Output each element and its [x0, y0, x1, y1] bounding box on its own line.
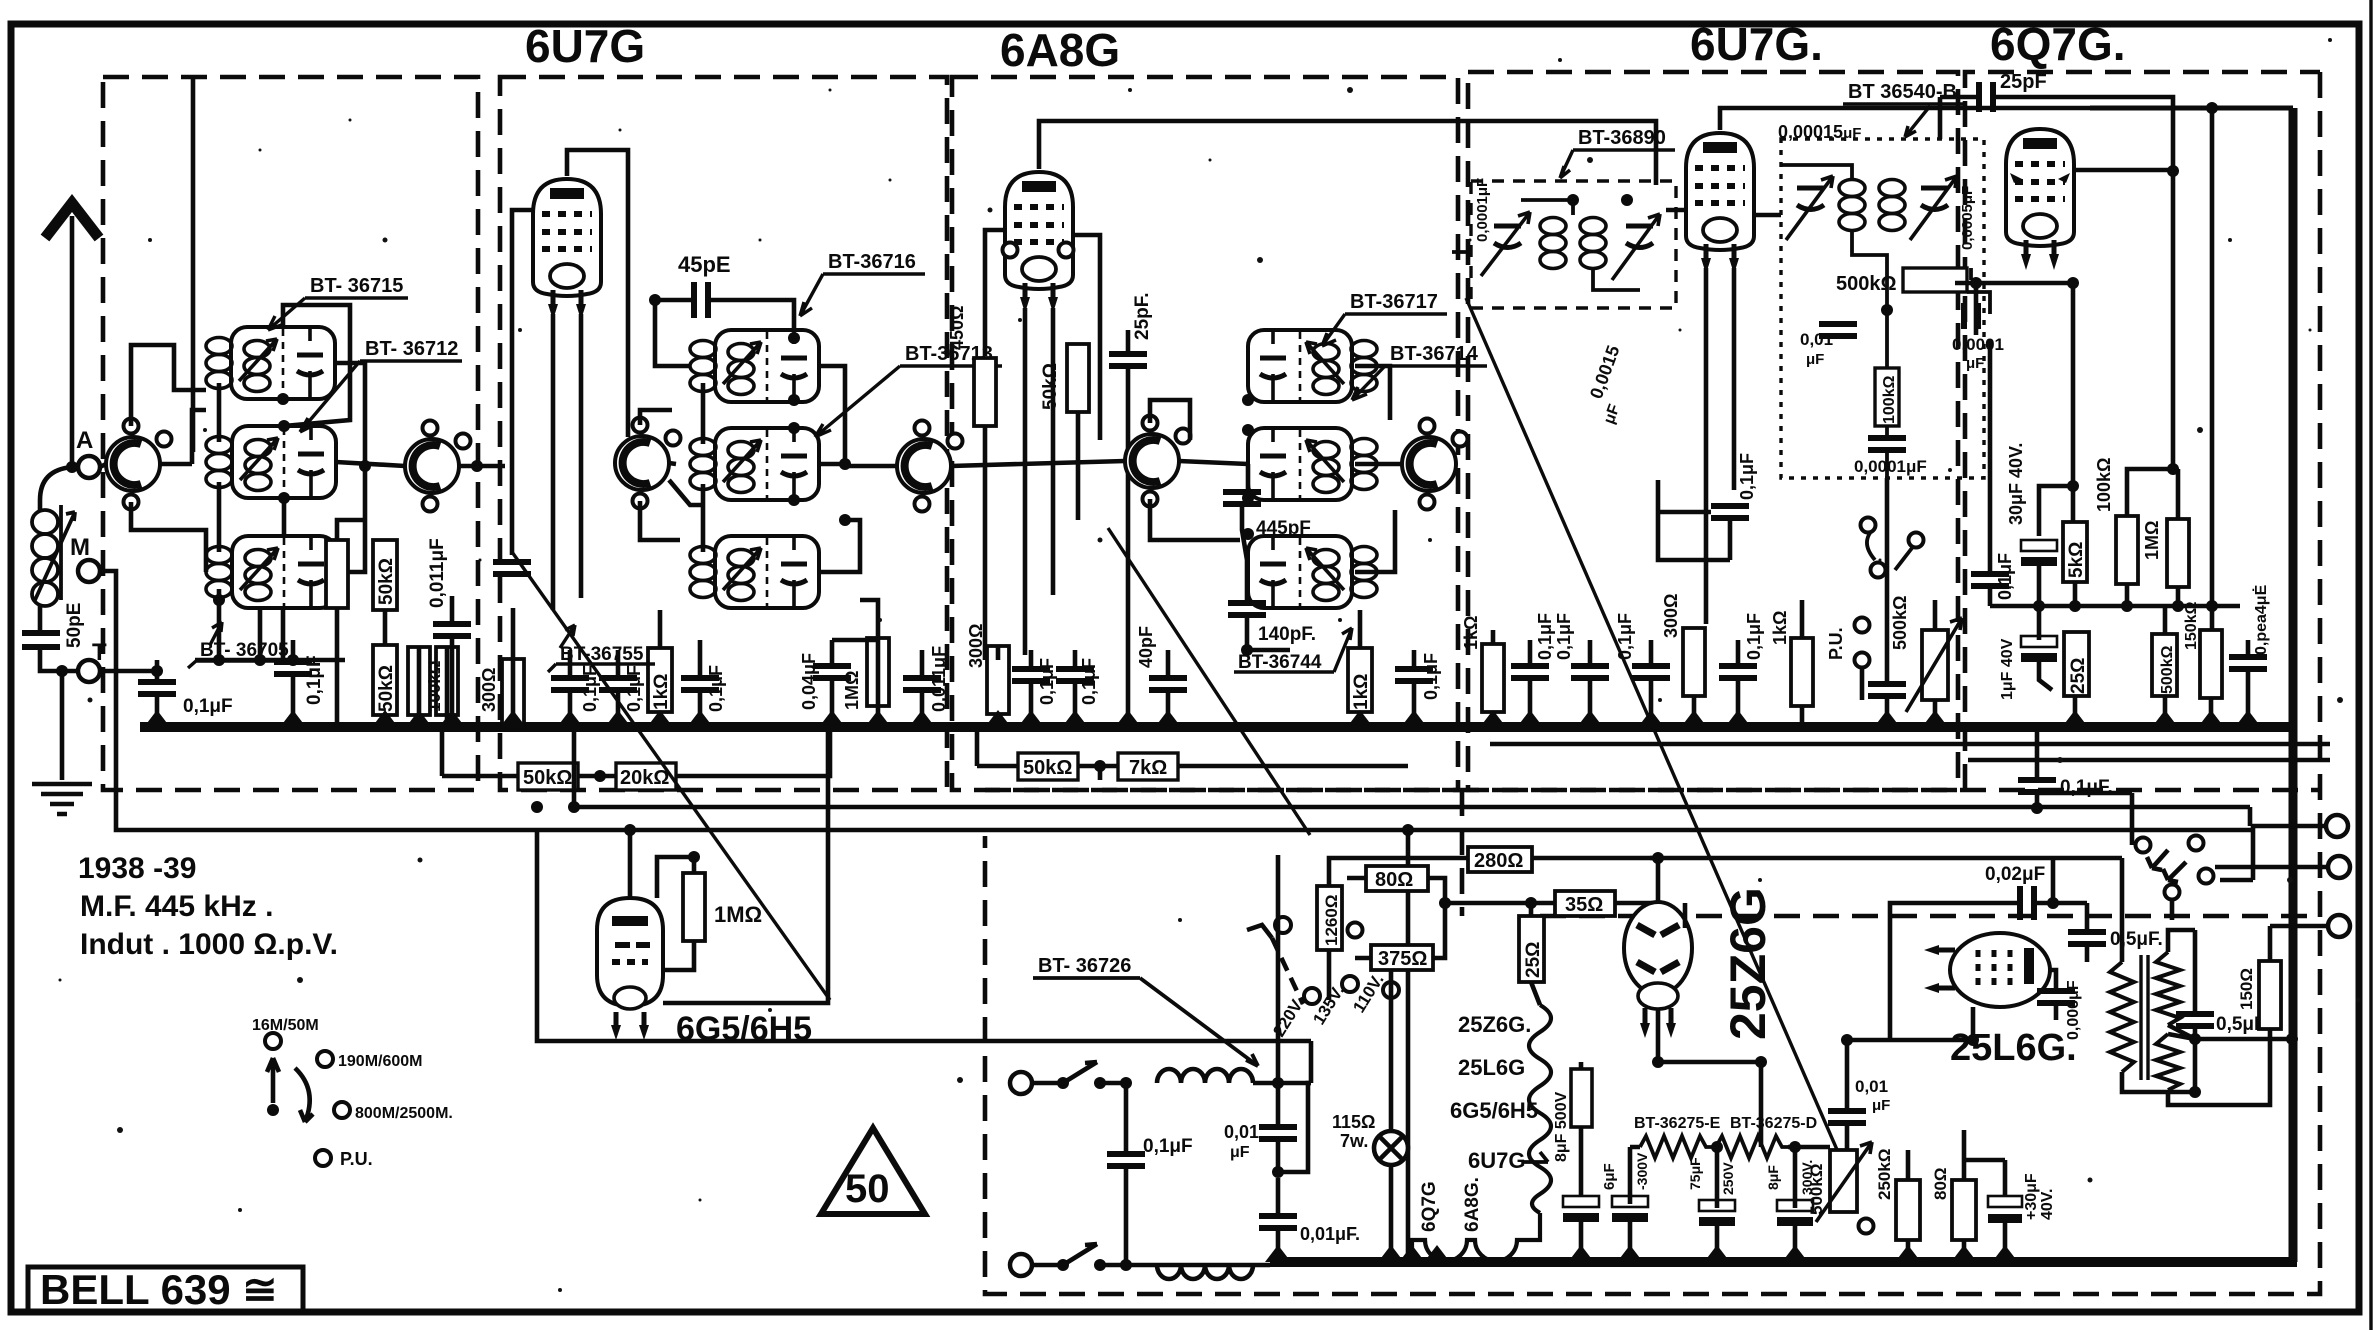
svg-text:1kΩ: 1kΩ	[651, 674, 672, 710]
cap 0.01uF b	[1259, 1216, 1297, 1228]
cap 0.1uF b	[599, 678, 637, 690]
svg-text:0,011μF: 0,011μF	[427, 538, 448, 608]
IF2 trimmer a	[1481, 212, 1530, 276]
svg-text:-300V: -300V	[1634, 1152, 1650, 1190]
wire coil to cap to T	[40, 604, 78, 671]
stage5 leads	[2039, 606, 2248, 727]
triangle 50 mark	[821, 1128, 925, 1214]
wire A to coil	[40, 467, 72, 512]
transformer wires	[1650, 858, 2292, 1105]
wire 25pF	[985, 330, 1128, 727]
svg-text:P.U.: P.U.	[1826, 627, 1846, 660]
stage3 interconnect	[1150, 366, 1402, 650]
svg-text:150kΩ: 150kΩ	[2183, 601, 2200, 650]
svg-text:6Q7G.: 6Q7G.	[1990, 18, 2126, 70]
wire 6Q7G cathode circuit	[1955, 171, 2178, 536]
cap 0.1uF s4d	[1719, 666, 1757, 678]
cap 0.1uF s4c	[1632, 666, 1670, 678]
svg-text:1MΩ: 1MΩ	[714, 902, 762, 927]
svg-text:BT-36755: BT-36755	[560, 644, 644, 665]
triode-diode V5 6Q7G	[2006, 129, 2074, 270]
svg-text:25L6G.: 25L6G.	[1950, 1027, 2077, 1069]
resistor 1k boxed s3	[1348, 648, 1372, 712]
svg-text:1kΩ: 1kΩ	[1461, 616, 1481, 650]
IF transformer block2	[715, 428, 819, 500]
IF2 trimmer b	[1612, 214, 1660, 280]
svg-text:0,011μF: 0,011μF	[929, 646, 949, 712]
ground	[32, 784, 92, 814]
resistor 500k boxed	[2152, 634, 2177, 696]
wire 6A8G grid caps	[985, 230, 1100, 655]
svg-text:0,1μF: 0,1μF	[304, 655, 325, 705]
wire choke junction	[1253, 855, 1311, 1124]
antenna coil L1	[32, 505, 75, 606]
resistor 150 Ohm out	[2259, 961, 2281, 1029]
svg-text:80Ω: 80Ω	[1375, 869, 1413, 891]
svg-text:25pF.: 25pF.	[1132, 292, 1153, 340]
cap 0.1uF mid	[274, 662, 312, 674]
capacitor 50pF	[22, 633, 60, 647]
mixer triode V1a	[106, 419, 172, 510]
svg-text:50: 50	[845, 1167, 890, 1211]
terminal wires	[2215, 826, 2328, 926]
svg-text:6U7G: 6U7G	[525, 20, 645, 72]
wire 25pF run	[1940, 97, 2212, 606]
pentode V3 6A8G	[1005, 172, 1073, 313]
resistor 1k boxed	[648, 648, 672, 712]
svg-text:100kΩ: 100kΩ	[425, 661, 444, 712]
wire blocks top feed	[283, 305, 350, 536]
resistor 1260 boxed	[1317, 886, 1342, 950]
svg-text:8μF 500V: 8μF 500V	[1553, 1091, 1570, 1162]
svg-text:6Q7G: 6Q7G	[1419, 1181, 1440, 1232]
wire AVC long line	[116, 827, 1311, 1041]
svg-text:6U7G.: 6U7G.	[1690, 18, 1823, 70]
svg-text:7w.: 7w.	[1340, 1131, 1368, 1151]
terminal M	[78, 560, 100, 582]
grid pins	[1003, 243, 1018, 258]
AVC 50k boxed s3	[1018, 753, 1078, 780]
svg-text:P.U.: P.U.	[340, 1149, 373, 1169]
svg-text:BT- 36712: BT- 36712	[365, 338, 458, 360]
svg-text:300Ω: 300Ω	[1661, 594, 1681, 638]
svg-text:6G5/6H5: 6G5/6H5	[676, 1010, 812, 1048]
resistor 1k s4b	[1791, 638, 1813, 706]
stage3 leads to bus	[998, 610, 1414, 727]
heater resistor wavy	[1529, 1005, 1551, 1213]
svg-text:BT-36716: BT-36716	[828, 251, 916, 273]
wire out to 6A8G	[951, 461, 1125, 466]
terminal T	[78, 660, 100, 682]
det trimmer b	[1910, 176, 1957, 240]
cap 445pF	[1223, 492, 1261, 504]
IF transformer BT-36716 block1	[715, 330, 819, 402]
det coil a	[1839, 180, 1865, 231]
cap 0.006uF	[2037, 991, 2075, 1003]
resistor 25 boxed vertical	[1519, 916, 1544, 982]
stage1 component leads to bus	[157, 520, 452, 727]
mains switch top	[1057, 1077, 1069, 1089]
svg-text:0,1μF: 0,1μF	[1535, 613, 1555, 660]
wire A to triode	[100, 464, 106, 467]
resistor 375 boxed	[1371, 945, 1433, 970]
svg-text:25pF: 25pF	[2000, 71, 2047, 93]
svg-text:375Ω: 375Ω	[1378, 948, 1427, 970]
electrolytic 30uF 40V	[2021, 540, 2057, 566]
primary coil	[690, 341, 716, 392]
resistor 280 boxed	[1468, 847, 1532, 872]
bus feet stage2	[500, 710, 526, 727]
triode V2a	[615, 418, 681, 509]
svg-text:μF: μF	[1230, 1144, 1250, 1161]
resistor 250k	[1875, 1149, 1920, 1240]
svg-text:0,1μF: 0,1μF	[183, 696, 233, 717]
svg-text:0,01: 0,01	[1800, 330, 1833, 349]
resistor 300 Ohm s3	[987, 646, 1009, 714]
right dashed border	[985, 72, 2320, 1294]
svg-text:μF: μF	[1966, 355, 1984, 372]
below bus right rails	[1490, 744, 2330, 826]
svg-text:8μF: 8μF	[1765, 1165, 1781, 1190]
volume pot 500k	[1890, 596, 1962, 712]
cap 0.1uF c	[681, 678, 719, 690]
svg-text:T: T	[92, 639, 107, 666]
svg-text:115Ω: 115Ω	[1332, 1112, 1375, 1132]
svg-text:25L6G: 25L6G	[1458, 1055, 1525, 1080]
svg-text:0,1μF: 0,1μF	[1143, 1136, 1193, 1157]
cap 0.01uF det	[1819, 324, 1857, 336]
stage box 6Q7G	[1965, 72, 2320, 790]
band switch	[265, 1033, 350, 1166]
svg-text:6A8G.: 6A8G.	[1462, 1177, 1483, 1232]
cap 0.04uF	[813, 666, 851, 678]
wire antenna lead	[70, 216, 75, 467]
wire stage1 lower row	[195, 589, 345, 660]
cap 0.1uF left	[138, 682, 176, 694]
junction dots stage1	[277, 393, 289, 405]
svg-text:BT- 36715: BT- 36715	[310, 275, 403, 297]
svg-text:500kΩ: 500kΩ	[1890, 596, 1910, 650]
cap 0.1uF PU	[1868, 684, 1906, 696]
resistor 300 s4	[1683, 628, 1705, 696]
cap 0.011uF	[903, 678, 941, 690]
cap 0.01uF a	[1259, 1127, 1297, 1139]
title text 1938-39	[78, 852, 338, 961]
wire T to cap	[100, 669, 157, 674]
resistor 50k	[1067, 344, 1089, 412]
svg-text:45pE: 45pE	[678, 252, 731, 277]
resistor 1M eye	[683, 873, 705, 941]
svg-text:0,04μF: 0,04μF	[799, 653, 819, 710]
cap 0.5uF speaker	[2176, 1014, 2214, 1026]
wire screen drop left	[512, 210, 581, 610]
svg-text:6U7G: 6U7G	[1468, 1148, 1525, 1173]
bottom power bus	[1270, 1257, 2297, 1267]
pointer diagonal stage2	[512, 552, 830, 1000]
grid wire 25L6G	[1847, 903, 1973, 1040]
cap 0.1uF below bus right	[2018, 780, 2056, 792]
volume pot 500k af	[1807, 1142, 1872, 1222]
electrolytic bank	[1563, 1196, 1599, 1222]
svg-text:50kΩ: 50kΩ	[376, 665, 397, 712]
resistor 1M	[2167, 519, 2189, 587]
mains voltage selector	[1247, 917, 1399, 1004]
svg-text:450Ω: 450Ω	[947, 306, 967, 350]
svg-text:1MΩ: 1MΩ	[2142, 521, 2162, 560]
resistor plain lower	[408, 647, 430, 715]
svg-text:0,0001μF: 0,0001μF	[1854, 457, 1927, 476]
wire box internals	[1452, 200, 1640, 290]
svg-text:Indut . 1000 Ω.p.V.: Indut . 1000 Ω.p.V.	[80, 928, 338, 961]
junction dots stage3	[1242, 394, 1254, 406]
top right feed wire	[2090, 106, 2293, 111]
svg-text:μF: μF	[1806, 351, 1824, 368]
wire top drop	[191, 77, 196, 452]
resistor 100k	[2116, 516, 2138, 584]
svg-text:150Ω: 150Ω	[2237, 968, 2256, 1010]
node A junction	[66, 461, 78, 473]
label BT-36705	[188, 622, 298, 668]
svg-text:300Ω: 300Ω	[479, 668, 499, 712]
output terminals	[2326, 815, 2348, 837]
svg-text:0,1μF: 0,1μF	[1744, 613, 1764, 660]
svg-text:20kΩ: 20kΩ	[620, 767, 669, 789]
cap grid 0.1uF	[493, 562, 531, 574]
svg-text:1μF 40V: 1μF 40V	[1999, 638, 2016, 700]
svg-text:7kΩ: 7kΩ	[1129, 757, 1167, 779]
BELL 639 title box	[28, 1267, 303, 1313]
svg-text:35Ω: 35Ω	[1565, 894, 1603, 916]
svg-text:30μF 40V.: 30μF 40V.	[2006, 443, 2026, 525]
cap 25pF top right	[1979, 82, 1993, 112]
resistor 100k	[436, 647, 458, 715]
wire coil links	[160, 383, 219, 552]
cap 40pF	[1149, 678, 1187, 690]
resistor 25 Ohm boxed	[2064, 632, 2089, 696]
cap 0.1uF 6Q7G cath	[1971, 574, 2009, 586]
svg-text:300Ω: 300Ω	[966, 624, 986, 668]
AVC 7k boxed s3	[1118, 753, 1178, 780]
svg-text:0,00015μF: 0,00015μF	[1778, 122, 1861, 142]
svg-text:0,006μF: 0,006μF	[2065, 980, 2082, 1040]
terminal A	[78, 456, 100, 478]
svg-text:M: M	[70, 534, 90, 561]
stage box 6U7G det	[1468, 72, 1958, 790]
cap 140pF	[1228, 603, 1266, 615]
svg-text:0,0001: 0,0001	[1952, 335, 2004, 354]
filter cap 8uF500V box	[1553, 1069, 1592, 1162]
svg-text:0,5μF.: 0,5μF.	[2110, 929, 2163, 950]
triode V2b	[897, 421, 963, 512]
svg-text:140pF.: 140pF.	[1258, 624, 1316, 645]
cap 0.1uF s3c	[1395, 669, 1433, 681]
bus feet stage1	[144, 710, 170, 727]
svg-text:800M/2500M.: 800M/2500M.	[355, 1105, 453, 1122]
svg-text:BT-36275-E: BT-36275-E	[1634, 1115, 1721, 1132]
IF2 coil b	[1580, 218, 1606, 269]
osc transformer block1	[1248, 330, 1352, 402]
PU terminals	[1855, 618, 1870, 633]
junction T	[56, 665, 68, 677]
label BT-36716	[800, 251, 925, 316]
main ground bus	[140, 722, 2296, 732]
triode V3a	[1125, 416, 1191, 507]
svg-text:BT- 36726: BT- 36726	[1038, 955, 1131, 977]
svg-text:0,1μF.: 0,1μF.	[2060, 777, 2113, 798]
svg-text:6G5/6H5: 6G5/6H5	[1450, 1098, 1538, 1123]
resistor 150k	[2200, 630, 2222, 698]
svg-text:50kΩ: 50kΩ	[1040, 363, 1061, 410]
svg-text:500kΩ: 500kΩ	[2159, 645, 2176, 694]
IF transformer block2	[232, 426, 336, 498]
cap 0.01uF af	[1828, 1111, 1866, 1123]
electrolytic 30uF 40V af	[1988, 1173, 2056, 1223]
bus feet stage3	[985, 710, 1011, 727]
label BT-36726	[1033, 955, 1258, 1066]
cap 0.0001uF det	[1964, 303, 1978, 329]
svg-text:50pE: 50pE	[64, 603, 85, 648]
svg-text:50kΩ: 50kΩ	[1023, 757, 1072, 779]
stage2 leads to bus	[513, 600, 922, 727]
svg-text:6A8G: 6A8G	[1000, 24, 1120, 76]
rect cathode wire	[1658, 903, 1761, 1147]
IF transformer block3	[715, 536, 819, 608]
pickup switch	[1867, 533, 1912, 570]
svg-text:16M/50M: 16M/50M	[252, 1017, 319, 1034]
power network wires	[1311, 858, 1658, 1083]
svg-text:0,01μF.: 0,01μF.	[1300, 1224, 1360, 1244]
svg-text:50kΩ: 50kΩ	[376, 558, 397, 605]
pilot lamp 115 Ohm	[1374, 1131, 1408, 1165]
svg-text:1MΩ: 1MΩ	[842, 671, 862, 710]
svg-text:1kΩ: 1kΩ	[1351, 674, 1372, 710]
svg-text:0,02μF: 0,02μF	[1985, 864, 2045, 885]
wire 6A8G top to osc	[1039, 121, 1656, 185]
cap 0.1uF a	[551, 678, 589, 690]
svg-text:100kΩ: 100kΩ	[2094, 458, 2114, 512]
svg-text:BELL 639 ≅: BELL 639 ≅	[40, 1266, 278, 1313]
triode V2 input	[405, 421, 471, 512]
wire M run down and across	[100, 571, 2255, 1256]
svg-text:50kΩ: 50kΩ	[523, 767, 572, 789]
wire V4 plate top	[1720, 108, 2090, 130]
AVC resistor 20kOhm boxed	[616, 763, 676, 790]
svg-text:0,1μF: 0,1μF	[1615, 613, 1635, 660]
resistor 450 Ohm	[974, 358, 996, 426]
svg-text:0,0005μF: 0,0005μF	[1959, 186, 1976, 250]
eye wires	[630, 731, 828, 1003]
det coil b	[1879, 180, 1905, 231]
output transformer primary	[2110, 952, 2180, 1090]
resistor 80 Ohm af	[1931, 1167, 1976, 1240]
svg-text:25Ω: 25Ω	[1523, 942, 1544, 978]
wire secondary chain	[336, 363, 405, 572]
resistor 80 boxed	[1366, 866, 1428, 891]
primary coil block2	[206, 437, 232, 488]
choke coil top BT-36726	[1157, 1069, 1253, 1083]
svg-text:0,1μF: 0,1μF	[706, 665, 726, 712]
svg-text:0,1μF: 0,1μF	[1037, 658, 1057, 705]
cap 0.1uF s3a	[1012, 669, 1050, 681]
svg-text:1kΩ: 1kΩ	[1770, 611, 1790, 645]
svg-text:1260Ω: 1260Ω	[1322, 895, 1341, 946]
bus feet stage4	[1480, 710, 1506, 727]
svg-text:M.F. 445 kHz .: M.F. 445 kHz .	[80, 890, 273, 923]
cap 0.0001uF det2	[1868, 438, 1906, 450]
svg-text:0,1μF: 0,1μF	[1079, 658, 1099, 705]
cap 0.1uF s4a	[1511, 666, 1549, 678]
pentode V4 6U7G det	[1686, 133, 1754, 274]
junction row wire	[1990, 566, 2240, 632]
svg-text:25Z6G.: 25Z6G.	[1458, 1012, 1531, 1037]
svg-text:25Ω: 25Ω	[2068, 658, 2089, 694]
label BT-36713	[815, 343, 1002, 437]
triode V3b	[1402, 419, 1468, 510]
label BT-36717	[1322, 291, 1447, 346]
resistor BT-36275-E	[1640, 1136, 1712, 1158]
wires mixer to coils	[131, 345, 206, 572]
svg-text:0,01: 0,01	[1224, 1122, 1259, 1142]
wire tone drop	[2037, 793, 2253, 920]
svg-text:0,1μF: 0,1μF	[1737, 453, 1757, 500]
heater bumps 6Q7G 6A8G	[1412, 1213, 1540, 1262]
label BT-36715	[268, 275, 408, 330]
svg-text:100kΩ: 100kΩ	[1881, 375, 1898, 424]
label BT-36755	[548, 625, 655, 672]
det dotted box BT-36540-B	[1781, 139, 1984, 478]
wire cath bypass	[1658, 480, 1730, 560]
resistor BT-36275-D	[1716, 1136, 1788, 1158]
cap 45pF	[694, 282, 708, 318]
mains terminal top	[1010, 1072, 1032, 1094]
svg-text:BT-36717: BT-36717	[1350, 291, 1438, 313]
svg-text:BT-36744: BT-36744	[1238, 652, 1322, 673]
svg-text:5kΩ: 5kΩ	[2066, 542, 2087, 578]
stage4 leads to bus	[1493, 600, 1935, 727]
rectifier 25Z6G	[1624, 902, 1692, 1038]
svg-text:μF: μF	[1872, 1097, 1890, 1114]
resistor 1M	[867, 638, 889, 706]
IF transformer dashed box BT-36890	[1471, 181, 1676, 308]
label BT-36744	[1234, 628, 1352, 673]
resistor 100k boxed det	[1875, 368, 1899, 426]
svg-text:0,0001μF: 0,0001μF	[1474, 178, 1491, 242]
svg-text:280Ω: 280Ω	[1474, 850, 1523, 872]
AVC wire s3	[977, 731, 1408, 780]
svg-text:40V.: 40V.	[2039, 1189, 2056, 1220]
cathode cap 0.1uF V4	[1711, 506, 1749, 518]
svg-text:0,pea4μĖ: 0,pea4μĖ	[2252, 584, 2270, 655]
label BT-36712	[300, 338, 462, 432]
label BT-36540-B	[1843, 81, 1965, 137]
label BT-36890	[1560, 127, 1675, 178]
osc transformer block3	[1248, 536, 1352, 608]
svg-text:BT-36275-D: BT-36275-D	[1730, 1115, 1817, 1132]
AVC resistor 50kOhm boxed	[518, 763, 578, 790]
osc transformer block2	[1248, 428, 1352, 500]
tuning eye 6G5	[597, 898, 663, 1040]
wire T to ground	[60, 671, 65, 780]
electrolytic 1uF 40V	[2021, 636, 2057, 662]
svg-text:0,1μF: 0,1μF	[580, 665, 600, 712]
stage box antenna	[103, 77, 478, 790]
svg-text:0,1μF: 0,1μF	[1554, 613, 1574, 660]
cap 0.5uF	[2068, 932, 2106, 944]
wire V4 to det box	[1666, 210, 1781, 624]
stage2 interconnect wires	[640, 366, 897, 572]
resistor 50k boxed lower	[373, 645, 397, 715]
det trimmer a	[1786, 176, 1833, 240]
